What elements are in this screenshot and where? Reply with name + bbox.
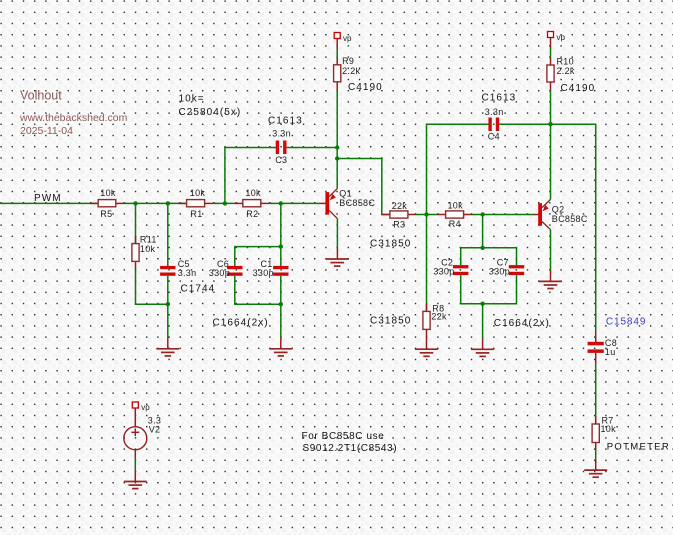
ground GND C1	[269, 349, 292, 356]
svg-text:R5: R5	[100, 209, 112, 219]
transistor Q1	[325, 188, 375, 218]
wire V2 to ground	[134, 450, 136, 457]
wire vp1 to R9	[336, 49, 338, 58]
node junction J4 (C6/C1 tap)	[279, 201, 283, 205]
svg-text:C31850: C31850	[370, 238, 411, 249]
wire C8 to R7	[595, 363, 597, 424]
svg-text:POTMETER: POTMETER	[607, 441, 670, 452]
svg-text:C1744: C1744	[181, 283, 216, 294]
svg-text:C4: C4	[488, 132, 500, 142]
svg-text:10k=: 10k=	[179, 93, 205, 104]
svg-text:vp: vp	[557, 33, 566, 42]
wire PWM input	[0, 202, 98, 204]
wire J6 to R3	[337, 159, 390, 215]
supply vp2	[548, 32, 566, 49]
svg-text:www.thebackshed.com: www.thebackshed.com	[19, 112, 128, 124]
capacitor C6	[209, 259, 243, 278]
wire C5 to ground	[167, 276, 169, 338]
resistor R7	[592, 415, 616, 450]
transistor Q2	[538, 199, 588, 229]
svg-text:R11: R11	[140, 235, 157, 245]
svg-text:330p: 330p	[253, 268, 274, 278]
svg-text:C4190: C4190	[561, 83, 596, 94]
svg-text:10k: 10k	[140, 244, 156, 254]
svg-text:C25804(5x): C25804(5x)	[179, 107, 242, 118]
ground GND V2	[124, 482, 147, 489]
wire R10 down to Q2 emitter	[550, 90, 552, 200]
svg-text:C1664(2x): C1664(2x)	[494, 318, 550, 329]
resistor R10	[547, 57, 575, 90]
wire R9 down to Q1	[336, 90, 338, 189]
wire bracket top C2/C7	[461, 248, 517, 265]
wire R11 bottom to C5 line	[136, 269, 168, 304]
wire R7 to ground	[595, 450, 597, 460]
wire R1 to R2	[213, 202, 234, 204]
wire bracket bottom C2/C7	[461, 275, 517, 304]
svg-text:For BC858C use: For BC858C use	[302, 431, 385, 442]
svg-text:PWM: PWM	[34, 193, 62, 204]
capacitor C7	[489, 257, 524, 276]
wire bracket bottom C6/C1	[235, 276, 281, 304]
svg-text:C31850: C31850	[370, 316, 411, 327]
svg-text:C4190: C4190	[348, 82, 383, 93]
svg-text:V2: V2	[149, 425, 161, 435]
svg-text:10k: 10k	[601, 424, 617, 434]
svg-text:BC858C: BC858C	[339, 198, 375, 208]
svg-text:330p: 330p	[433, 267, 454, 277]
wire J4 down to bracket	[280, 203, 282, 246]
svg-text:22k: 22k	[431, 312, 447, 322]
svg-text:330p: 330p	[489, 267, 510, 277]
wire R5 to R1	[124, 202, 187, 204]
node junction R11/C5	[166, 302, 170, 306]
capacitor C1	[253, 259, 289, 278]
ground GND Q2	[539, 281, 562, 288]
svg-text:10k: 10k	[245, 188, 261, 198]
node junction J5 (C3 right)	[335, 145, 339, 149]
resistor R5	[90, 188, 124, 219]
ground GND C5	[156, 349, 179, 356]
resistor R2	[234, 188, 269, 219]
node junction bracket bottom	[279, 302, 283, 306]
wire R8 branch down	[426, 215, 428, 312]
wire R11 branch vertical	[135, 203, 137, 243]
svg-text:C3: C3	[275, 155, 287, 165]
capacitor C5	[160, 259, 196, 278]
node junction bracket top	[279, 244, 283, 248]
supply vp1	[334, 33, 352, 50]
svg-text:10k: 10k	[100, 188, 116, 198]
svg-text:10k: 10k	[448, 201, 464, 211]
svg-text:vp: vp	[141, 403, 150, 412]
wire C4 to Q2 column	[499, 123, 551, 125]
wire Q1 emitter down to ground	[336, 219, 338, 248]
wire R3 to node J7	[416, 214, 437, 216]
svg-text:2.2k: 2.2k	[557, 66, 575, 76]
node junction J8	[548, 122, 552, 126]
svg-text:3.3n: 3.3n	[178, 268, 197, 278]
svg-text:C1613: C1613	[482, 93, 517, 104]
node junction bracket top C2/C7	[480, 246, 484, 250]
svg-text:C1613: C1613	[268, 116, 303, 127]
capacitor C2	[433, 257, 468, 276]
svg-text:Q2: Q2	[552, 205, 565, 215]
ground GND C2/C7	[471, 349, 494, 356]
svg-text:2.2k: 2.2k	[342, 66, 360, 76]
voltage source V2	[124, 408, 161, 450]
svg-text:3.3n: 3.3n	[272, 129, 291, 139]
svg-text:R9: R9	[342, 56, 354, 66]
svg-text:R4: R4	[449, 219, 461, 229]
svg-text:S9012.2T1(C8543): S9012.2T1(C8543)	[303, 443, 398, 454]
svg-text:C1664(2x): C1664(2x)	[213, 318, 269, 329]
resistor R11	[132, 235, 157, 270]
capacitor C3	[268, 116, 303, 166]
svg-text:3.3n: 3.3n	[485, 107, 504, 117]
ground GND R7	[584, 470, 607, 477]
wire R2 to Q1 base	[269, 202, 320, 204]
resistor R9	[334, 56, 361, 89]
wire C3 to Q1 collector line	[286, 147, 337, 149]
wire bracket to ground	[482, 304, 484, 339]
wire bracket to ground	[280, 304, 282, 338]
resistor R3	[382, 201, 416, 230]
svg-text:1u: 1u	[605, 347, 616, 357]
node junction J3 (C3 tap)	[223, 201, 227, 205]
ground GND R8	[415, 349, 438, 356]
ground GND Q1	[326, 259, 349, 266]
svg-text:Volhout: Volhout	[20, 89, 62, 103]
wire Q2 collector to ground	[550, 230, 552, 271]
node junction J6 (R3 takeoff)	[335, 156, 339, 160]
svg-text:10k: 10k	[190, 188, 206, 198]
svg-text:2025-11-04: 2025-11-04	[20, 125, 73, 137]
wire C4 branch up	[427, 124, 489, 214]
svg-text:R2: R2	[246, 209, 258, 219]
svg-text:vp: vp	[343, 34, 352, 43]
svg-text:R10: R10	[557, 57, 574, 67]
node junction J2	[166, 201, 170, 205]
wire J9 down to bracket	[482, 215, 484, 248]
wire vp2 to R10	[550, 48, 552, 58]
wire output to C8 column	[551, 124, 596, 331]
wire R4 to Q2 base	[472, 214, 533, 216]
svg-text:22k: 22k	[392, 201, 408, 211]
svg-text:R1: R1	[190, 209, 202, 219]
svg-text:330p: 330p	[209, 268, 230, 278]
supply vp3	[132, 402, 150, 412]
node junction J1	[133, 201, 137, 205]
capacitor C8	[588, 331, 617, 363]
node junction bracket bottom C2/C7	[480, 302, 484, 306]
svg-text:C15849: C15849	[606, 316, 646, 327]
capacitor C4	[482, 93, 517, 142]
resistor R1	[178, 188, 213, 219]
resistor R8	[423, 303, 447, 337]
resistor R4	[437, 201, 472, 230]
wire R8 to ground	[426, 337, 428, 349]
svg-text:R3: R3	[393, 220, 405, 230]
node junction J9 (C2/C7 tap)	[480, 212, 484, 216]
wire C3 branch up and across	[225, 148, 276, 204]
svg-text:Q1: Q1	[339, 188, 352, 198]
svg-text:BC858C: BC858C	[552, 214, 588, 224]
wire bracket top C6/C1	[235, 247, 281, 267]
node junction J7 (R3/R4/C4/R8)	[424, 212, 428, 216]
wire C5 branch vertical	[167, 203, 169, 266]
